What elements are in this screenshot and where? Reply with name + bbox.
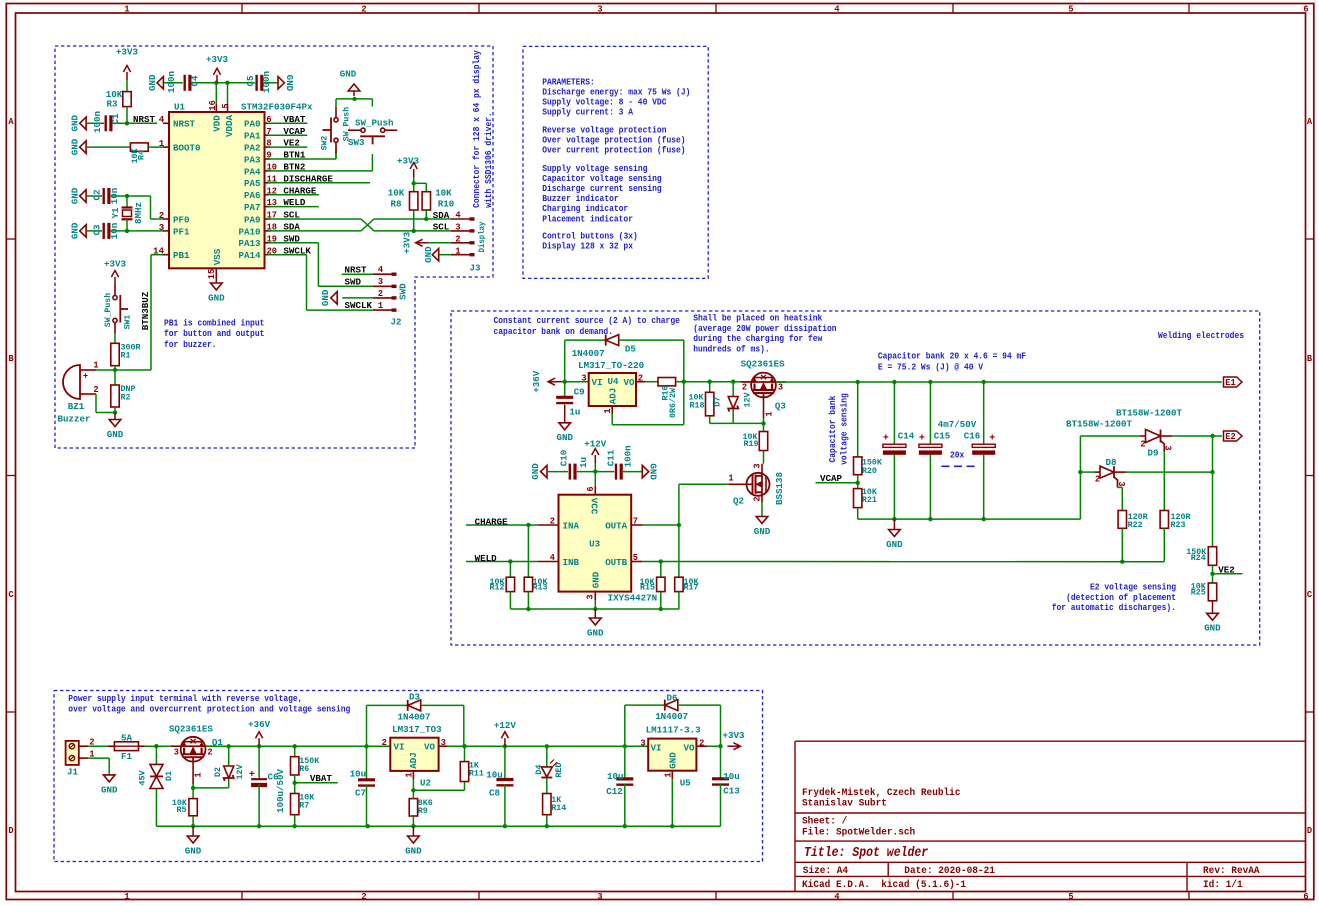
svg-text:PB1 is combined input: PB1 is combined input: [164, 319, 264, 329]
svg-text:OUTB: OUTB: [605, 557, 627, 568]
svg-text:E1: E1: [1225, 378, 1236, 388]
svg-text:C7: C7: [355, 787, 366, 798]
svg-text:VI: VI: [394, 742, 405, 753]
svg-text:A: A: [8, 117, 14, 127]
svg-text:R14: R14: [551, 803, 566, 813]
svg-text:10u: 10u: [607, 771, 624, 782]
svg-text:D9: D9: [1148, 447, 1159, 458]
svg-text:PA7: PA7: [244, 202, 261, 213]
svg-text:J2: J2: [391, 316, 402, 327]
svg-text:+36V: +36V: [248, 719, 270, 730]
svg-text:R4: R4: [137, 150, 147, 160]
svg-text:capacitor bank on demand.: capacitor bank on demand.: [494, 327, 614, 337]
svg-text:12V: 12V: [235, 764, 245, 780]
svg-text:Supply voltage sensing: Supply voltage sensing: [542, 164, 647, 174]
svg-text:LM317_TO-220: LM317_TO-220: [578, 360, 644, 371]
svg-text:Capacitor voltage sensing: Capacitor voltage sensing: [542, 174, 662, 184]
svg-text:3: 3: [778, 383, 783, 393]
svg-text:(detection of placement: (detection of placement: [1066, 593, 1176, 603]
svg-text:8MHz: 8MHz: [133, 202, 144, 224]
svg-text:2: 2: [207, 748, 212, 758]
svg-text:VO: VO: [424, 742, 435, 753]
svg-text:GND: GND: [648, 463, 659, 480]
svg-text:INB: INB: [563, 557, 580, 568]
svg-text:4: 4: [834, 5, 840, 15]
svg-text:+: +: [249, 770, 255, 781]
svg-text:U3: U3: [589, 538, 600, 549]
svg-text:Welding electrodes: Welding electrodes: [1158, 331, 1244, 341]
svg-text:2: 2: [361, 892, 366, 902]
svg-text:ADJ: ADJ: [408, 752, 419, 769]
svg-text:U1: U1: [174, 101, 185, 112]
svg-text:Charging indicator: Charging indicator: [542, 204, 628, 214]
svg-text:LM317_TO3: LM317_TO3: [392, 724, 442, 735]
svg-text:R24: R24: [1191, 553, 1206, 563]
svg-text:R12: R12: [490, 583, 505, 593]
svg-text:GND: GND: [886, 539, 903, 550]
svg-text:IXYS4427N: IXYS4427N: [608, 592, 658, 603]
svg-text:during the charging for few: during the charging for few: [693, 334, 823, 344]
svg-text:Display: Display: [477, 222, 487, 253]
svg-text:J1: J1: [67, 766, 78, 777]
svg-text:C4: C4: [189, 75, 200, 86]
svg-text:100n: 100n: [622, 445, 633, 467]
svg-text:1: 1: [93, 361, 99, 371]
svg-text:GND: GND: [70, 115, 81, 132]
svg-text:2: 2: [699, 739, 704, 749]
svg-text:PA0: PA0: [244, 119, 261, 130]
svg-text:PA13: PA13: [239, 238, 261, 249]
svg-text:2: 2: [378, 289, 383, 299]
svg-text:5: 5: [221, 103, 231, 108]
svg-text:R2: R2: [121, 392, 131, 402]
svg-text:KiCad E.D.A. kicad (5.1.6)-1: KiCad E.D.A. kicad (5.1.6)-1: [802, 879, 966, 891]
svg-text:D3: D3: [409, 691, 420, 702]
svg-text:C5: C5: [245, 75, 256, 86]
svg-text:C11: C11: [606, 449, 617, 466]
svg-text:R20: R20: [862, 466, 877, 476]
svg-text:SQ2361ES: SQ2361ES: [741, 358, 785, 369]
svg-text:SQ2361ES: SQ2361ES: [169, 724, 213, 735]
svg-text:with SSD1306 driver.: with SSD1306 driver.: [484, 112, 494, 208]
svg-text:2: 2: [382, 738, 387, 748]
svg-text:+: +: [83, 372, 88, 382]
svg-text:3: 3: [1116, 481, 1126, 486]
svg-text:BZ1: BZ1: [68, 401, 85, 412]
svg-text:GND: GND: [284, 75, 295, 92]
svg-text:D4: D4: [534, 765, 544, 775]
svg-text:R5: R5: [177, 805, 187, 815]
svg-text:2: 2: [550, 517, 555, 527]
svg-text:10u: 10u: [350, 768, 367, 779]
svg-text:SDA: SDA: [433, 210, 450, 221]
svg-text:1u: 1u: [578, 457, 589, 468]
svg-text:(average 20W power dissipation: (average 20W power dissipation: [693, 324, 836, 334]
svg-text:GND: GND: [557, 432, 574, 443]
svg-text:RED: RED: [554, 763, 564, 778]
svg-text:LM1117-3.3: LM1117-3.3: [646, 724, 701, 735]
svg-text:0R6/2W: 0R6/2W: [668, 387, 678, 418]
svg-text:PA9: PA9: [244, 214, 261, 225]
svg-text:4: 4: [159, 114, 165, 125]
svg-text:D: D: [8, 826, 14, 836]
svg-text:1: 1: [664, 772, 674, 778]
svg-text:1: 1: [378, 301, 384, 311]
svg-text:Y1: Y1: [110, 207, 121, 218]
svg-text:+3V3: +3V3: [401, 232, 412, 254]
svg-text:+3V3: +3V3: [206, 54, 228, 65]
svg-text:hundreds of ms).: hundreds of ms).: [693, 344, 770, 354]
svg-text:100n: 100n: [261, 71, 272, 93]
svg-text:VDDA: VDDA: [224, 115, 235, 137]
svg-text:PA1: PA1: [244, 131, 261, 142]
svg-text:GND: GND: [185, 845, 202, 856]
svg-text:NRST: NRST: [173, 119, 195, 130]
svg-text:Display 128 x 32 px: Display 128 x 32 px: [542, 242, 633, 252]
svg-text:6: 6: [1303, 892, 1308, 902]
svg-text:Capacitor bank: Capacitor bank: [828, 395, 838, 462]
svg-text:2: 2: [1095, 475, 1100, 485]
svg-text:D6: D6: [667, 692, 678, 703]
svg-text:BT158W-1200T: BT158W-1200T: [1116, 407, 1182, 418]
svg-text:for buzzer.: for buzzer.: [164, 340, 217, 350]
svg-text:4: 4: [550, 553, 556, 563]
svg-text:Size: A4: Size: A4: [803, 865, 848, 877]
svg-text:GND: GND: [587, 627, 604, 638]
svg-text:VCC: VCC: [589, 498, 600, 515]
svg-text:Over voltage protection (fuse): Over voltage protection (fuse): [542, 135, 685, 145]
svg-text:2: 2: [753, 496, 763, 501]
svg-text:VDD: VDD: [212, 115, 223, 132]
svg-text:C8: C8: [489, 787, 500, 798]
svg-text:SW1: SW1: [123, 315, 133, 330]
svg-text:4m7/50V: 4m7/50V: [938, 419, 977, 430]
svg-text:for automatic discharges).: for automatic discharges).: [1052, 603, 1176, 613]
svg-text:SWD: SWD: [345, 276, 362, 287]
svg-text:+12V: +12V: [494, 720, 516, 731]
svg-text:2: 2: [742, 383, 747, 393]
svg-text:File: SpotWelder.sch: File: SpotWelder.sch: [802, 826, 915, 838]
svg-text:GND: GND: [107, 429, 124, 440]
svg-text:3: 3: [1163, 445, 1173, 450]
svg-text:+12V: +12V: [584, 438, 606, 449]
svg-text:Rev: RevAA: Rev: RevAA: [1203, 865, 1260, 877]
svg-text:10K: 10K: [435, 187, 452, 198]
svg-text:1: 1: [603, 408, 613, 414]
svg-text:100n: 100n: [166, 71, 177, 93]
svg-text:VO: VO: [624, 377, 635, 388]
svg-text:F1: F1: [121, 751, 132, 762]
svg-text:U2: U2: [420, 777, 431, 788]
svg-text:3: 3: [378, 277, 383, 287]
svg-text:VSS: VSS: [212, 248, 223, 265]
svg-text:E2 voltage sensing: E2 voltage sensing: [1090, 583, 1176, 593]
svg-text:PARAMETERS:: PARAMETERS:: [542, 77, 595, 87]
svg-text:3: 3: [581, 373, 586, 383]
svg-text:NRST: NRST: [133, 114, 155, 125]
svg-text:Q2: Q2: [733, 495, 744, 506]
svg-text:GND: GND: [70, 222, 81, 239]
svg-text:+36V: +36V: [531, 370, 542, 392]
svg-text:SWCLK: SWCLK: [345, 300, 373, 311]
svg-text:B: B: [1307, 354, 1313, 364]
svg-text:2: 2: [361, 5, 366, 15]
svg-text:3: 3: [174, 748, 179, 758]
svg-text:U4: U4: [608, 376, 619, 387]
svg-text:OUTA: OUTA: [605, 520, 627, 531]
svg-text:6: 6: [586, 486, 596, 491]
svg-text:1N4007: 1N4007: [398, 711, 431, 722]
svg-text:+3V3: +3V3: [397, 155, 419, 166]
svg-text:C: C: [1307, 590, 1313, 600]
svg-text:R17: R17: [684, 583, 699, 593]
svg-text:Supply voltage: 8 - 40 VDC: Supply voltage: 8 - 40 VDC: [542, 98, 667, 108]
svg-text:PF0: PF0: [173, 214, 190, 225]
svg-text:B: B: [8, 354, 14, 364]
svg-text:10K: 10K: [388, 187, 405, 198]
svg-text:Reverse voltage protection: Reverse voltage protection: [542, 125, 666, 135]
svg-text:1: 1: [765, 411, 775, 417]
svg-text:GND: GND: [405, 845, 422, 856]
svg-text:SCL: SCL: [433, 222, 450, 233]
svg-text:R18: R18: [690, 401, 705, 411]
svg-text:+3V3: +3V3: [723, 730, 745, 741]
svg-text:PA10: PA10: [239, 226, 261, 237]
svg-text:R10: R10: [438, 198, 455, 209]
svg-text:GND: GND: [530, 463, 541, 480]
svg-text:VI: VI: [592, 377, 603, 388]
svg-text:VBAT: VBAT: [310, 773, 332, 784]
svg-text:3: 3: [597, 5, 602, 15]
svg-text:D8: D8: [1106, 457, 1117, 468]
svg-text:PA3: PA3: [244, 154, 261, 165]
svg-text:1: 1: [405, 772, 415, 778]
svg-text:1N4007: 1N4007: [572, 348, 605, 359]
svg-text:GND: GND: [423, 246, 434, 263]
svg-text:1: 1: [194, 772, 204, 778]
svg-text:for button and output: for button and output: [164, 329, 264, 339]
svg-text:VCAP: VCAP: [820, 473, 842, 484]
svg-text:5A: 5A: [121, 732, 132, 743]
svg-text:20x: 20x: [950, 451, 965, 461]
svg-text:SW2: SW2: [320, 136, 330, 151]
svg-text:R15: R15: [640, 583, 655, 593]
svg-text:Shall be placed on heatsink: Shall be placed on heatsink: [693, 314, 823, 324]
svg-text:C13: C13: [723, 785, 740, 796]
svg-text:+: +: [883, 434, 889, 445]
svg-text:ADJ: ADJ: [608, 388, 619, 405]
svg-text:Power supply input terminal wi: Power supply input terminal with reverse…: [68, 694, 302, 704]
svg-text:Over current protection (fuse): Over current protection (fuse): [542, 145, 685, 155]
svg-text:Stanislav Subrt: Stanislav Subrt: [802, 798, 887, 810]
svg-text:PA14: PA14: [239, 250, 261, 261]
svg-text:BT158W-1200T: BT158W-1200T: [1066, 418, 1132, 429]
svg-text:Connector for 128 x 64 px disp: Connector for 128 x 64 px display: [472, 50, 482, 208]
svg-text:A: A: [1307, 117, 1313, 127]
svg-text:10u: 10u: [723, 771, 740, 782]
svg-text:R21: R21: [862, 495, 877, 505]
svg-text:PF1: PF1: [173, 226, 190, 237]
svg-text:STM32F030F4Px: STM32F030F4Px: [241, 101, 313, 112]
svg-text:5: 5: [1068, 5, 1073, 15]
svg-text:C1: C1: [110, 113, 121, 124]
svg-text:Placement indicator: Placement indicator: [542, 214, 633, 224]
svg-text:R9: R9: [418, 806, 428, 816]
svg-text:45V: 45V: [138, 770, 148, 786]
svg-text:Capacitor bank 20 x 4.6 = 94 m: Capacitor bank 20 x 4.6 = 94 mF: [878, 352, 1026, 362]
svg-text:voltage sensing: voltage sensing: [840, 393, 850, 465]
svg-text:Discharge energy: max 75 Ws (J: Discharge energy: max 75 Ws (J): [542, 87, 690, 97]
svg-text:E2: E2: [1225, 432, 1235, 442]
svg-text:1: 1: [455, 246, 461, 256]
svg-text:Q3: Q3: [775, 400, 786, 411]
svg-text:3: 3: [586, 594, 596, 599]
svg-text:D1: D1: [164, 771, 174, 781]
svg-text:R19: R19: [744, 439, 759, 449]
svg-text:BSS138: BSS138: [774, 472, 785, 505]
svg-text:SW3: SW3: [348, 137, 365, 148]
svg-text:+: +: [919, 434, 925, 445]
svg-text:R8: R8: [391, 198, 402, 209]
svg-text:C10: C10: [559, 449, 570, 466]
svg-text:1N4007: 1N4007: [655, 711, 688, 722]
svg-text:R1: R1: [121, 351, 131, 361]
svg-text:2: 2: [1140, 440, 1145, 450]
svg-text:100n: 100n: [92, 111, 103, 133]
svg-text:10n: 10n: [109, 222, 120, 239]
svg-text:Buzzer: Buzzer: [58, 413, 91, 424]
svg-text:PB1: PB1: [173, 250, 190, 261]
svg-text:12V: 12V: [743, 392, 753, 408]
svg-text:10n: 10n: [109, 187, 120, 204]
svg-text:Control buttons (3x): Control buttons (3x): [542, 232, 638, 242]
svg-text:GND: GND: [1204, 623, 1221, 634]
svg-text:Id: 1/1: Id: 1/1: [1203, 879, 1243, 891]
svg-text:R23: R23: [1171, 520, 1186, 530]
svg-text:C12: C12: [606, 786, 623, 797]
svg-text:100u/50V: 100u/50V: [275, 769, 286, 813]
svg-text:D5: D5: [625, 343, 636, 354]
svg-text:R22: R22: [1128, 520, 1143, 530]
svg-text:R6: R6: [299, 764, 309, 774]
svg-text:GND: GND: [340, 68, 357, 79]
svg-text:3: 3: [640, 739, 645, 749]
svg-text:10u: 10u: [486, 769, 503, 780]
svg-text:WELD: WELD: [475, 553, 497, 564]
svg-text:C: C: [8, 590, 14, 600]
svg-text:PA5: PA5: [244, 178, 261, 189]
svg-text:INA: INA: [563, 520, 580, 531]
svg-text:SW_Push: SW_Push: [103, 293, 113, 327]
svg-text:Date: 2020-08-21: Date: 2020-08-21: [904, 865, 995, 877]
svg-text:C2: C2: [91, 189, 102, 200]
svg-text:Discharge current sensing: Discharge current sensing: [542, 184, 662, 194]
svg-text:C9: C9: [574, 386, 585, 397]
svg-text:GND: GND: [101, 784, 118, 795]
svg-text:BOOT0: BOOT0: [173, 143, 201, 154]
svg-text:D7: D7: [713, 397, 723, 407]
svg-text:VI: VI: [651, 742, 662, 753]
svg-text:GND: GND: [668, 752, 679, 769]
svg-text:D2: D2: [213, 767, 223, 777]
svg-text:GND: GND: [320, 289, 331, 306]
svg-text:4: 4: [378, 265, 384, 275]
svg-text:+3V3: +3V3: [104, 258, 126, 269]
svg-text:E = 75.2 Ws (J) @ 40 V: E = 75.2 Ws (J) @ 40 V: [878, 363, 984, 373]
svg-text:3: 3: [597, 892, 602, 902]
svg-text:Buzzer indicator: Buzzer indicator: [542, 194, 619, 204]
svg-text:NRST: NRST: [345, 264, 367, 275]
svg-text:1u: 1u: [569, 406, 580, 417]
svg-text:R13: R13: [533, 583, 548, 593]
svg-text:R25: R25: [1191, 588, 1206, 598]
svg-text:R3: R3: [107, 98, 118, 109]
svg-text:+3V3: +3V3: [116, 46, 138, 57]
svg-text:+: +: [989, 434, 995, 445]
svg-text:1: 1: [124, 892, 130, 902]
svg-text:D: D: [1307, 826, 1313, 836]
svg-text:PA4: PA4: [244, 166, 261, 177]
svg-text:BTN3BUZ: BTN3BUZ: [140, 291, 151, 330]
svg-text:VO: VO: [684, 742, 695, 753]
svg-text:GND: GND: [754, 526, 771, 537]
svg-text:Title: Spot welder: Title: Spot welder: [804, 846, 928, 861]
svg-text:J3: J3: [470, 262, 481, 273]
svg-text:GND: GND: [590, 571, 601, 588]
svg-text:C15: C15: [934, 430, 951, 441]
svg-text:PA6: PA6: [244, 190, 261, 201]
svg-text:CHARGE: CHARGE: [475, 516, 508, 527]
svg-text:C14: C14: [898, 430, 915, 441]
svg-text:3: 3: [455, 223, 460, 233]
svg-text:SW_Push: SW_Push: [355, 117, 394, 128]
svg-text:6: 6: [1303, 5, 1308, 15]
svg-text:3: 3: [753, 463, 763, 468]
svg-text:GND: GND: [147, 74, 158, 91]
svg-text:VE2: VE2: [1218, 564, 1235, 575]
svg-text:SWD: SWD: [398, 283, 409, 300]
svg-text:C3: C3: [91, 224, 102, 235]
svg-text:U5: U5: [680, 777, 691, 788]
svg-text:C16: C16: [964, 430, 981, 441]
svg-text:4: 4: [455, 211, 461, 221]
svg-text:GND: GND: [208, 292, 225, 303]
svg-text:Constant current source (2 A): Constant current source (2 A) to charge: [494, 316, 680, 326]
svg-text:15: 15: [207, 269, 217, 279]
svg-text:GND: GND: [70, 187, 81, 204]
svg-text:4: 4: [834, 892, 840, 902]
svg-text:5: 5: [1068, 892, 1073, 902]
svg-text:R11: R11: [469, 768, 484, 778]
svg-text:R7: R7: [299, 801, 309, 811]
svg-text:2: 2: [455, 234, 460, 244]
svg-text:2: 2: [93, 385, 98, 395]
svg-text:1: 1: [124, 5, 130, 15]
svg-text:GND: GND: [70, 139, 81, 156]
svg-text:over voltage and overcurrent p: over voltage and overcurrent protection …: [68, 704, 350, 714]
svg-text:Supply current: 3 A: Supply current: 3 A: [542, 108, 633, 118]
svg-text:PA2: PA2: [244, 143, 261, 154]
svg-text:1: 1: [728, 474, 734, 484]
